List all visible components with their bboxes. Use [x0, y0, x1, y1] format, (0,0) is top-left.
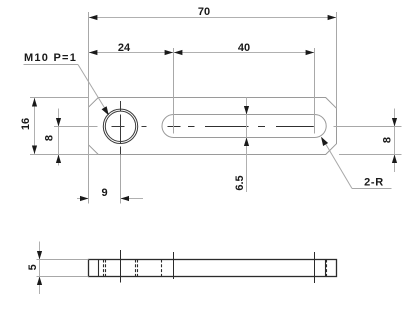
extension line left (x=88.5): [88, 12, 90, 204]
side view hidden line hole left thread: [103, 260, 105, 277]
dimension 70 right arrow: [328, 15, 337, 20]
side view centerline hole: [120, 250, 122, 283]
svg-text:M10 P=1: M10 P=1: [24, 52, 77, 64]
svg-text:40: 40: [238, 42, 250, 54]
dimension 24 left arrow: [89, 50, 98, 55]
hole horizontal centerline: [112, 126, 147, 128]
dimension 5 lower arrow (points up): [37, 277, 42, 286]
svg-text:8: 8: [44, 135, 56, 141]
extension line centerline left: [54, 126, 98, 128]
extension line slot left center (x=173.5): [173, 48, 175, 134]
extension line centerline right: [334, 126, 402, 128]
extension line slot right center (x=314.5): [314, 48, 316, 134]
dimension 5 line: [39, 242, 41, 295]
side view centerline slot left: [173, 252, 175, 279]
svg-text:24: 24: [118, 42, 131, 54]
label 2-R leader: [322, 138, 352, 189]
extension line plate bottom right: [339, 154, 402, 156]
svg-text:70: 70: [198, 6, 210, 18]
side view right chamfer line: [325, 260, 327, 277]
svg-text:8: 8: [382, 137, 394, 143]
dimension 8 left upper arrow (points down): [56, 118, 61, 127]
dimension 16 bottom arrow: [32, 146, 37, 155]
dimension 9 left arrow (points right): [80, 196, 89, 201]
dimension 5 upper arrow (points down): [37, 251, 42, 260]
dimension 9 line left tail: [77, 198, 89, 200]
side view hidden line slot left end: [161, 260, 163, 277]
extension line plate bottom left: [30, 154, 98, 156]
extension line hole centerline down: [120, 155, 122, 204]
dimension 70 line: [89, 17, 337, 19]
dimension 6.5 upper arrow (points down): [244, 106, 249, 115]
dimension 8 right line: [394, 109, 396, 173]
dimension 8 right lower arrow (points up): [392, 155, 397, 164]
hole M10 drill circle: [105, 111, 135, 141]
dimension 9 right arrow (points left): [121, 196, 130, 201]
extension line side top: [37, 259, 89, 261]
side view left chamfer line: [98, 260, 100, 277]
dimension 8 right upper arrow (points down): [392, 118, 397, 127]
dimension 24/40 shared line: [89, 52, 315, 54]
side view hidden line hole right thread: [137, 260, 139, 277]
extension line plate top left: [30, 97, 89, 99]
side view outline: [89, 260, 337, 277]
slot (elongated hole): [162, 115, 326, 138]
label M10 leader arrow: [102, 106, 109, 115]
dimension 16 top arrow: [32, 98, 37, 107]
side view centerline slot right: [314, 252, 316, 283]
extension line right (x=336.5): [336, 12, 338, 108]
extension line side bottom: [37, 276, 89, 278]
svg-text:16: 16: [20, 118, 32, 130]
label 2-R underline: [352, 188, 392, 190]
dimension 70 left arrow: [89, 15, 98, 20]
dimension 6.5 line: [246, 98, 248, 193]
hole vertical centerline: [120, 101, 122, 155]
slot centerline: [168, 126, 314, 128]
side view hidden line hole left drill: [105, 260, 107, 277]
side view hidden line hole right drill: [135, 260, 137, 277]
dimension 6.5 lower arrow (points up): [244, 138, 249, 147]
plate outline (top view): [89, 98, 337, 155]
svg-text:2-R: 2-R: [364, 177, 384, 189]
dimension 8 left line: [58, 109, 60, 166]
label M10 leader: [78, 65, 108, 114]
dimension 16 line: [34, 98, 36, 155]
svg-text:5: 5: [27, 264, 39, 270]
dimension 40 left arrow: [174, 50, 183, 55]
dimension 8 left lower arrow (points up): [56, 155, 61, 164]
svg-text:9: 9: [101, 187, 107, 199]
side view hidden line slot right end: [326, 260, 328, 277]
hole M10 thread circle: [103, 109, 137, 143]
dimension 40 right arrow: [306, 50, 315, 55]
dimension 9 line right tail: [121, 198, 144, 200]
label 2-R leader arrow: [321, 137, 328, 146]
svg-text:6.5: 6.5: [234, 175, 246, 190]
label M10 underline: [24, 64, 79, 66]
dimension 24 right arrow: [165, 50, 174, 55]
